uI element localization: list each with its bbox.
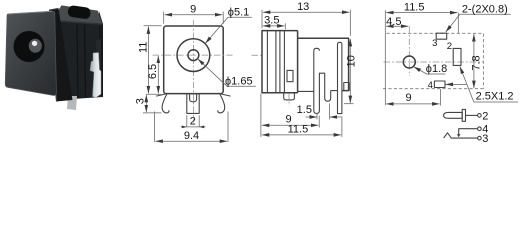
front view: φ1.65 leader <box>198 59 256 86</box>
photo: metal lug <box>90 53 101 98</box>
svg-text:4: 4 <box>428 80 433 91</box>
front view: dimension 11 line <box>147 27 149 94</box>
svg-text:3: 3 <box>135 98 147 104</box>
top view: dimension 4.5 line <box>386 25 408 27</box>
front view: dimension 9.4 extension lines <box>155 112 228 142</box>
side view: dimension 9 extension line <box>318 116 320 128</box>
photo: flange top-left highlight <box>50 8 59 101</box>
front view: center line vertical <box>192 20 194 122</box>
side view: dimension 11.5 line <box>262 134 341 136</box>
photo: top face front bevel <box>51 21 102 25</box>
front view: center pin <box>187 94 199 114</box>
svg-text:3: 3 <box>482 133 488 145</box>
svg-text:9.4: 9.4 <box>184 130 199 142</box>
svg-text:ϕ5.1: ϕ5.1 <box>228 7 249 19</box>
photo: bottom small foot <box>67 96 77 110</box>
photo: top face hole <box>67 5 91 20</box>
side view: dimension 3.5 line <box>263 25 285 27</box>
side view: bottom edge segments <box>298 90 338 93</box>
front view: center pin inner fold <box>190 94 197 102</box>
top view: φ1.8 leader <box>414 67 446 74</box>
top view: dimension 11.5 right extension <box>457 13 459 33</box>
front view: dimension 9.4 line <box>156 140 228 142</box>
front view: dimension 11 extension line <box>144 25 162 27</box>
front view: dimension 2 extension lines <box>187 115 199 127</box>
front view: φ5.1 leader <box>205 17 251 43</box>
top view: 2.5X1.2 leader from pad4 <box>446 83 467 85</box>
side view: axis center line <box>252 54 264 56</box>
side view: claw stub <box>284 93 295 100</box>
legend: pin 2 wire <box>466 114 478 116</box>
front view: left claw leg <box>156 94 169 113</box>
legend: pin 4 wire <box>459 129 478 136</box>
svg-text:ϕ1.8: ϕ1.8 <box>426 63 447 75</box>
side view: dimension 11.5 extension lines <box>261 94 342 137</box>
top view: pad 3 <box>436 33 447 39</box>
photo: body right edge strip <box>99 11 103 96</box>
side view: middle contact top cap <box>314 48 320 50</box>
side view: dimension 13 extension lines <box>262 10 350 36</box>
front view: body square <box>164 26 224 94</box>
photo: body top face <box>51 5 102 24</box>
side view: barrel block outline <box>262 31 298 93</box>
front view: dimension 2 line <box>181 126 206 128</box>
side view: claw stub center line <box>288 93 290 106</box>
legend: plug crossbar <box>462 109 465 121</box>
photo: center pin tip <box>32 41 37 46</box>
photo: barrel inner sleeve <box>29 39 42 53</box>
svg-text:3.5: 3.5 <box>264 15 279 27</box>
svg-text:2: 2 <box>447 41 452 52</box>
photo: barrel hole <box>14 31 45 62</box>
side view: dimension 10 line <box>349 39 351 103</box>
top view: dimension 7.8 line <box>473 34 475 88</box>
top view: 2-(2X0.8) leader <box>446 14 511 32</box>
photo: body seam lines <box>77 25 86 98</box>
photo: jack body block <box>51 21 103 101</box>
top view: center line vertical <box>408 26 410 76</box>
svg-text:6.5: 6.5 <box>147 64 159 79</box>
top view: dimension 11.5 line <box>386 12 457 14</box>
svg-text:2-(2X0.8): 2-(2X0.8) <box>462 3 508 15</box>
svg-text:10: 10 <box>345 55 357 67</box>
side view: dimension 10 extension line <box>344 103 354 105</box>
svg-text:2.5X1.2: 2.5X1.2 <box>476 91 514 103</box>
side view: barrel ring lines <box>267 31 284 93</box>
front view: right claw leg <box>218 94 231 113</box>
top view: pad 2 <box>453 48 461 65</box>
side view: collar line <box>297 31 299 93</box>
side view: dimension 1.5 arrows <box>306 116 317 118</box>
top view: center hole φ1.8 <box>403 56 415 68</box>
side view: main body outline <box>298 38 349 90</box>
svg-text:2: 2 <box>482 110 488 122</box>
svg-text:7.8: 7.8 <box>470 55 482 70</box>
top view: center line horizontal <box>384 61 484 63</box>
front view: dimension 9 line <box>165 14 223 16</box>
svg-text:1.5: 1.5 <box>297 104 312 116</box>
side view: back lug pin <box>338 42 342 113</box>
top view: dimension 9 extension line <box>439 89 441 106</box>
side view: dimension 3.5 extension line <box>284 23 286 29</box>
svg-text:11.5: 11.5 <box>404 1 425 13</box>
top view: pad 4 <box>434 81 445 88</box>
svg-text:11: 11 <box>138 42 150 53</box>
side view: corner notch rectangle <box>344 83 350 91</box>
photo: plate top bevel <box>8 11 53 14</box>
photo: body right lighter band <box>96 39 101 97</box>
front view: inner circle φ1.65 <box>188 50 199 61</box>
front view: dimension 3 line <box>145 95 147 112</box>
svg-text:11.5: 11.5 <box>288 124 309 136</box>
front view: dimension 3 extension lines <box>143 94 162 113</box>
legend: pin 3 switch arm <box>444 133 478 138</box>
svg-text:9: 9 <box>406 92 412 104</box>
svg-text:2: 2 <box>190 115 196 127</box>
side view: dimension 1.5 extension lines <box>317 104 330 120</box>
side view: slot rectangle <box>287 70 293 81</box>
front view: dimension 6.5 line <box>157 56 159 94</box>
side view: dimension 9 line <box>262 124 318 126</box>
legend: plug barrel symbol <box>444 112 463 118</box>
svg-text:3: 3 <box>432 38 437 49</box>
side view: dimension 13 line <box>263 11 350 13</box>
top view: left extension line <box>384 10 386 105</box>
front view: dimension 9 extension lines <box>164 12 224 24</box>
photo: flange slab <box>49 8 73 101</box>
top view: body dashed outline <box>383 33 483 88</box>
side view: middle contact legs <box>314 51 331 114</box>
top view: dimension 9 line <box>386 103 439 105</box>
photo: front plate <box>5 11 56 95</box>
legend: pin 2 terminal circle <box>478 114 482 118</box>
front view: center line horizontal <box>153 54 233 56</box>
legend: pin 4 terminal circle <box>478 127 482 131</box>
svg-text:13: 13 <box>297 1 309 13</box>
svg-text:ϕ1.65: ϕ1.65 <box>225 76 253 88</box>
svg-text:4.5: 4.5 <box>386 16 401 28</box>
legend: pin 4 contact tick <box>457 134 461 137</box>
front view: outer circle φ5.1 <box>177 39 210 72</box>
legend: pin 3 terminal circle <box>478 136 482 140</box>
top view: 2.5X1.2 leader from pad2 <box>460 67 518 103</box>
svg-text:9: 9 <box>190 4 196 16</box>
